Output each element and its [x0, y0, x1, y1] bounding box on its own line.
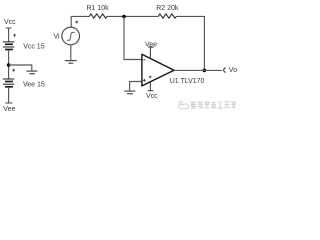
- wire noninverting input: [130, 82, 142, 91]
- op-amp Vcc pin: [148, 82, 153, 91]
- watermark logo: [178, 101, 189, 109]
- battery V+ terminal tick: [6, 27, 12, 29]
- ground under Vi: [65, 61, 77, 64]
- wire output: [174, 69, 222, 71]
- op-amp plus input mark: [143, 79, 146, 82]
- wire junction to ground: [9, 65, 32, 71]
- battery V+ plus mark: [13, 34, 16, 37]
- wire battery V- stem: [8, 88, 10, 103]
- watermark text: [191, 101, 236, 108]
- op-amp supply plus mark: [149, 76, 152, 79]
- svg-text:Vcc: Vcc: [146, 93, 158, 100]
- node junction under R1: [122, 15, 126, 19]
- output port arc: [224, 68, 226, 73]
- wire top from Vi to R1: [71, 16, 89, 27]
- source Vi plus mark: [75, 21, 78, 24]
- svg-text:Vcc 15: Vcc 15: [23, 43, 45, 50]
- source Vi waveform: [67, 32, 75, 40]
- op-amp Vee pin: [148, 47, 153, 58]
- battery V- plus mark: [12, 69, 15, 72]
- node junction left rail: [7, 63, 11, 67]
- battery Vcc 15: [3, 42, 14, 50]
- wire Vi to ground: [70, 45, 72, 61]
- svg-text:R1 10k: R1 10k: [87, 5, 110, 12]
- ground at noninverting input: [125, 91, 136, 94]
- op-amp U1: [142, 54, 174, 86]
- node junction output: [203, 69, 207, 73]
- svg-text:R2 20k: R2 20k: [156, 5, 179, 12]
- svg-text:Vee: Vee: [3, 106, 15, 113]
- resistor R2: [158, 14, 176, 18]
- svg-text:Vo: Vo: [229, 67, 237, 74]
- ground mid left: [26, 71, 37, 74]
- wire R1 to R2: [107, 15, 158, 17]
- svg-text:Vee 15: Vee 15: [23, 82, 45, 89]
- svg-text:U1 TLV170: U1 TLV170: [170, 78, 205, 85]
- op-amp minus input mark: [143, 59, 145, 61]
- resistor R1: [89, 14, 107, 18]
- wire battery V+ to junction: [8, 51, 10, 80]
- svg-text:Vcc: Vcc: [4, 19, 16, 26]
- battery V- terminal tick: [5, 102, 12, 104]
- source Vi: [62, 27, 80, 45]
- wire battery V+ stem: [8, 28, 10, 42]
- wire R2 to right rail: [177, 16, 205, 70]
- svg-text:Vi: Vi: [54, 33, 61, 40]
- battery Vee 15: [3, 79, 14, 87]
- wire inverting input: [124, 17, 142, 60]
- svg-text:Vee: Vee: [145, 41, 157, 48]
